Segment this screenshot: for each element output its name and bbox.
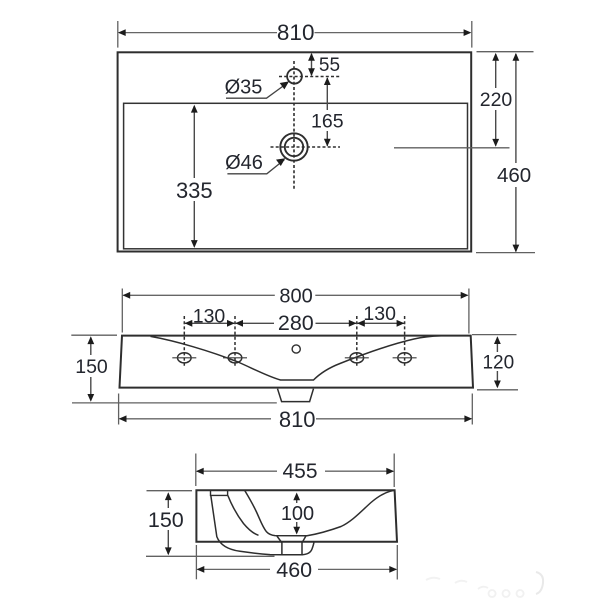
460 dimension	[196, 545, 397, 580]
svg-text:130: 130	[363, 303, 396, 325]
pedestal inner line	[228, 495, 259, 535]
underside right of recess	[302, 542, 314, 555]
extension lines gray	[118, 21, 535, 253]
810 dimension	[119, 32, 470, 34]
460 dimension (plan)	[515, 54, 517, 163]
fixing holes (ellipses with centerlines)	[178, 353, 412, 363]
svg-text:280: 280	[278, 311, 314, 335]
svg-text:335: 335	[176, 178, 213, 203]
overflow hole	[292, 345, 300, 353]
svg-text:810: 810	[277, 20, 315, 45]
pedestal outer line + underside bulge	[211, 495, 282, 554]
svg-text:150: 150	[75, 356, 108, 378]
810 dimension (front view bottom)	[119, 394, 473, 425]
svg-text:455: 455	[282, 460, 317, 483]
svg-text:55: 55	[319, 55, 340, 76]
150 dimension (front view left)	[71, 335, 276, 403]
svg-text:150: 150	[148, 508, 184, 532]
waste shroud trapezoid	[278, 389, 314, 402]
basin outer rect	[118, 52, 472, 251]
bracket tab	[211, 491, 228, 496]
130 / 280 / 130 chain	[184, 322, 235, 324]
svg-text:Ø46: Ø46	[225, 152, 263, 174]
150 dimension (side view)	[146, 491, 275, 557]
455 dimension	[196, 454, 394, 488]
waste hole circles (Ø46)	[280, 133, 307, 160]
tap hole circle (Ø35)	[287, 69, 302, 84]
svg-text:800: 800	[279, 285, 312, 307]
body outline	[120, 336, 474, 388]
55 dimension	[311, 54, 313, 75]
body outline	[196, 490, 397, 542]
335 dimension	[193, 106, 195, 178]
165 dimension	[326, 78, 328, 110]
svg-text:810: 810	[279, 407, 316, 432]
waste recess	[277, 536, 306, 555]
bowl interior	[245, 490, 395, 536]
120 dimension (front view right)	[472, 335, 518, 390]
220 dimension	[495, 54, 497, 88]
svg-text:220: 220	[480, 89, 513, 111]
centerlines dashed	[271, 61, 342, 190]
svg-text:165: 165	[311, 111, 344, 133]
svg-text:Ø35: Ø35	[225, 76, 263, 98]
svg-text:130: 130	[193, 305, 226, 327]
svg-text:100: 100	[281, 503, 314, 525]
basin inner rect (bowl)	[124, 103, 468, 249]
faint watermark	[426, 572, 543, 597]
800 dimension	[122, 289, 469, 334]
100 dimension	[296, 494, 298, 503]
svg-text:120: 120	[482, 352, 514, 373]
interior sweep curve	[151, 336, 442, 380]
svg-text:460: 460	[276, 558, 312, 582]
svg-text:460: 460	[497, 164, 531, 187]
